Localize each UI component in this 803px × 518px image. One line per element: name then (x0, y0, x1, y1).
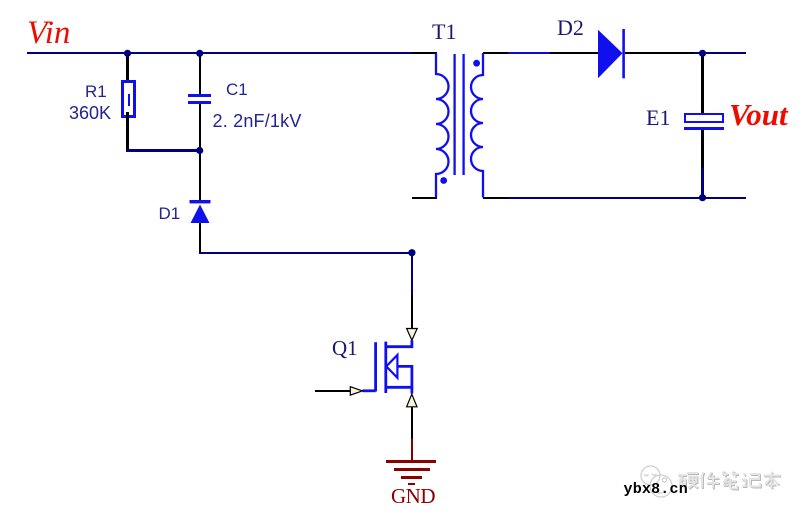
resistor R1 inner tick (128, 94, 130, 106)
label 2.2nF/1kV (213, 112, 302, 130)
diode D1 triangle (191, 205, 210, 224)
watermark chinese char 硬 (678, 473, 698, 488)
label D1 (159, 205, 181, 222)
wire C1 bottom lead (199, 104, 201, 150)
transistor Q1 source lead (410, 387, 413, 393)
ground bar 2 (394, 468, 430, 471)
label E1 (646, 107, 670, 129)
capacitor C1 plate bottom (188, 101, 211, 104)
wire top rail (Vin to T1) (27, 52, 412, 54)
capacitor E1 negative plate (684, 127, 724, 130)
capacitor E1 positive plate (684, 113, 724, 123)
wire T1 pin 3 stub (483, 52, 508, 54)
resistor R1 (121, 80, 136, 118)
wire gate input lead (315, 390, 351, 392)
transistor Q1 body arrow (386, 355, 397, 378)
label T1 (432, 21, 456, 43)
wire drain lead black (411, 295, 413, 329)
wire R1 to C1 bottom horizontal (126, 149, 201, 151)
wire E1 bottom lead navy (701, 168, 703, 197)
transistor Q1 gate bar (374, 342, 377, 391)
wire E1 bottom lead black (701, 130, 703, 168)
wire T1 pin 4 stub (bottom right) (483, 197, 508, 199)
wire R1 bottom lead (126, 112, 128, 150)
wire source lead black (411, 407, 413, 439)
label 360K (69, 104, 111, 122)
transistor Q1 drain stub (386, 340, 412, 346)
wire D1 to drain node horizontal (199, 252, 412, 254)
transformer T1 secondary winding (471, 53, 483, 198)
junction node R1/C1/D1 (196, 147, 203, 154)
junction node at output bottom (699, 194, 706, 201)
pin arrow drain (down) (407, 329, 418, 341)
label R1 (85, 83, 107, 100)
wire ground lead dark red (411, 439, 413, 462)
transformer T1 primary winding (436, 53, 449, 198)
wire drain node to Q1 navy (411, 254, 413, 295)
label GND (391, 486, 435, 507)
pin arrow source (up) (407, 394, 417, 407)
transformer T1 polarity dot primary (440, 177, 447, 184)
transistor Q1 body stub (386, 366, 412, 387)
junction node at drain (408, 249, 415, 256)
wire T1 pin 2 stub (bottom left) (412, 197, 437, 199)
transformer T1 polarity dot secondary (473, 60, 480, 67)
ground bar 1 (386, 460, 436, 463)
wire D1 anode lead (199, 223, 201, 253)
watermark ybx8.cn (624, 482, 688, 497)
watermark chinese char 记 (742, 473, 760, 487)
ground bar 3 (401, 476, 423, 479)
diode D1 cathode bar (190, 200, 211, 203)
wire node A to D1 cathode (199, 152, 201, 201)
wire bottom output rail (508, 197, 746, 199)
wire E1 top lead (701, 54, 703, 113)
wire R1 top lead (126, 54, 128, 81)
wire D2 anode lead (550, 52, 598, 54)
junction node at output top (699, 50, 706, 57)
label Vin (27, 17, 70, 50)
junction node at Vin/C1 (196, 50, 203, 57)
label D2 (557, 17, 584, 39)
wire C1 top lead (199, 54, 201, 94)
label C1 (226, 81, 248, 98)
transformer T1 core line right (462, 54, 464, 175)
transformer T1 core line left (453, 54, 455, 175)
diode D2 triangle (598, 30, 623, 79)
wire top right to output (694, 52, 746, 54)
watermark chinese char 本 (764, 472, 781, 489)
capacitor C1 plate top (188, 94, 211, 97)
diode D2 cathode bar (622, 29, 625, 78)
watermark chinese char 件 (701, 472, 720, 489)
wire T1 pin 1 stub (412, 52, 437, 54)
watermark logo circle (641, 466, 672, 497)
pin arrow gate (right) (350, 387, 362, 395)
wire secondary top blue segment (508, 52, 550, 54)
transistor Q1 gate lead (362, 389, 375, 392)
label Vout (729, 99, 788, 130)
watermark chinese char 笔 (722, 471, 738, 489)
transistor Q1 channel bar (384, 342, 387, 393)
wire D2 cathode lead (625, 52, 694, 54)
ground bar 4 (408, 483, 415, 486)
label Q1 (332, 338, 358, 359)
junction node at Vin/R1 (124, 50, 131, 57)
